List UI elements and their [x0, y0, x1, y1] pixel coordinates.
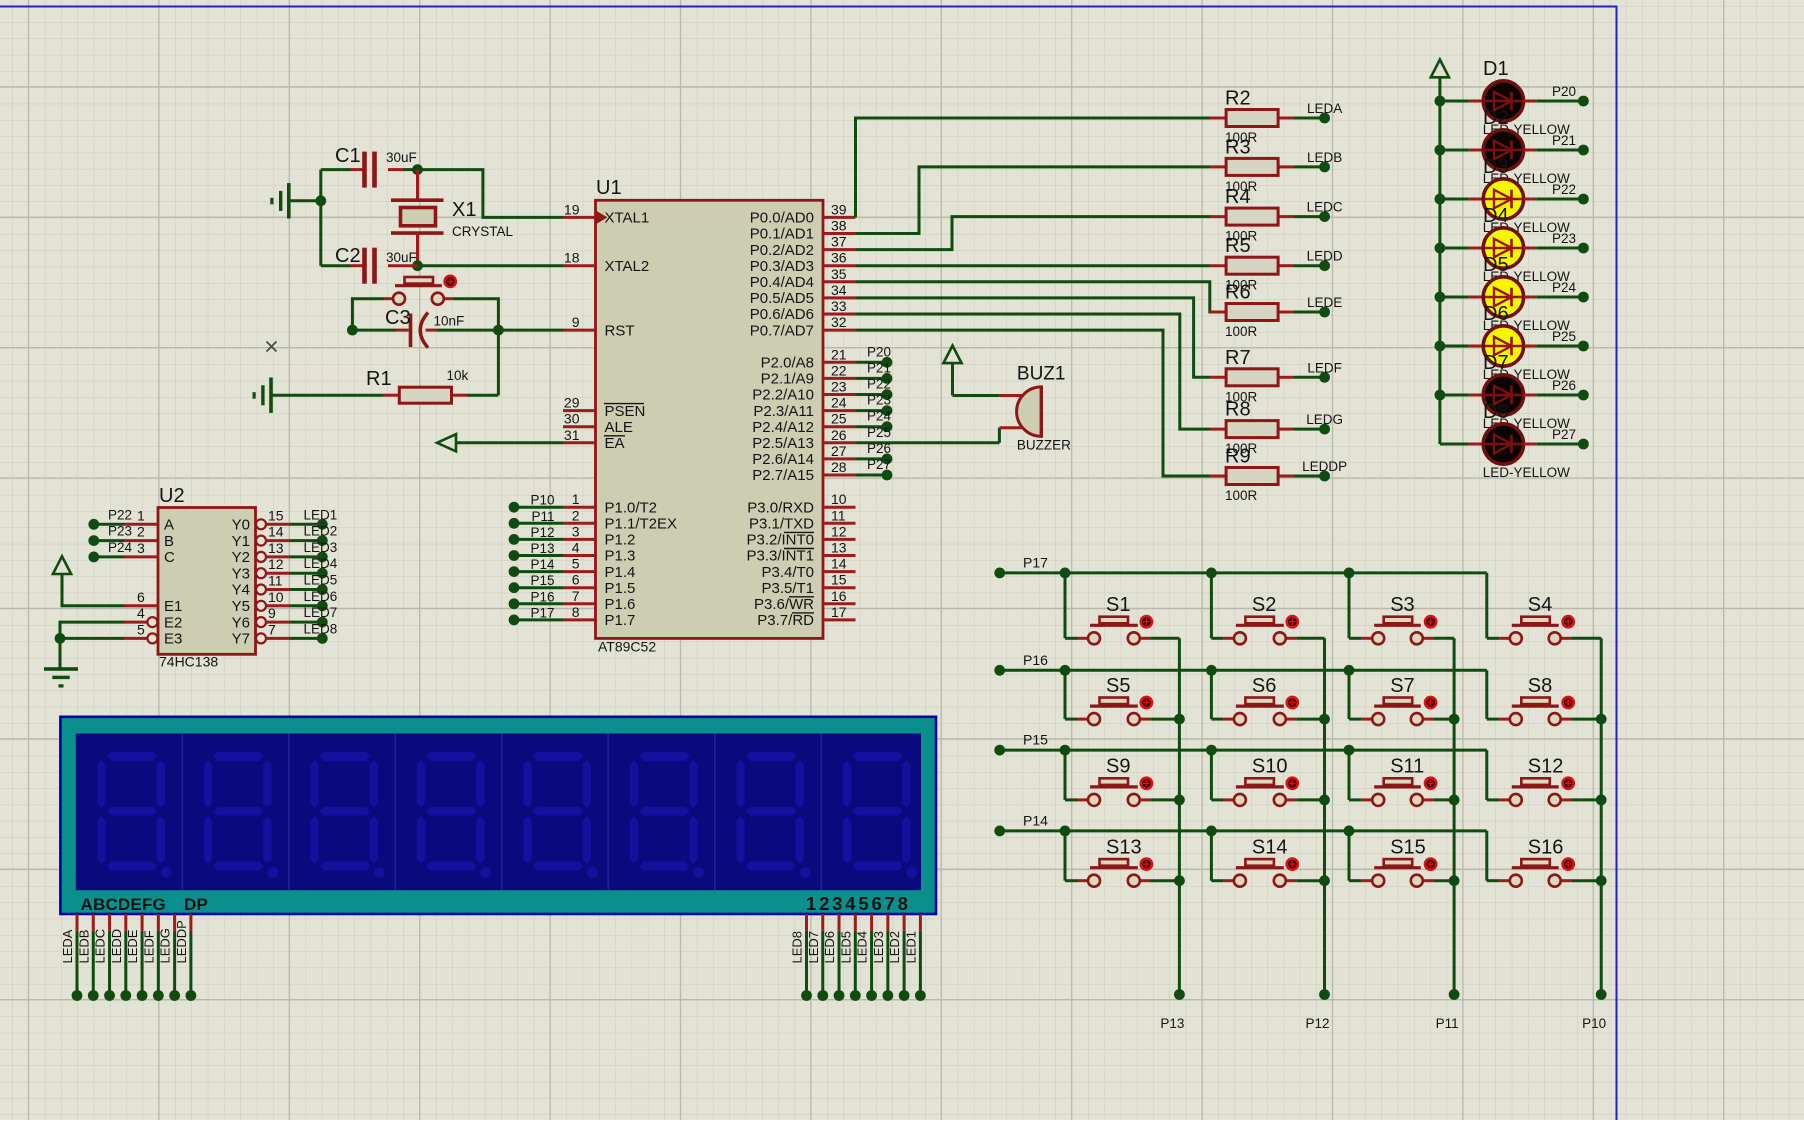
wire tap down (row 1 col 2): [1210, 573, 1213, 638]
pin 2 P1.1/T2EX (U1 left): [563, 507, 677, 532]
node LED rail junction 5: [1435, 292, 1446, 303]
svg-text:29: 29: [564, 395, 580, 411]
pin 5 E3 (U2 left): [124, 621, 182, 647]
wire keypad row P17: [994, 554, 1487, 578]
svg-text:D3: D3: [1483, 156, 1509, 178]
pin 8 P1.7 (U1 left): [563, 604, 635, 629]
svg-text:P0.3/AD3: P0.3/AD3: [750, 258, 814, 275]
svg-text:ABCDEFG: ABCDEFG: [81, 895, 166, 914]
svg-text:15: 15: [831, 572, 847, 588]
wire/node P16 (U1 P1.6): [509, 589, 563, 609]
digit separator 3: [394, 734, 396, 891]
wire Y0 to node LED1: [290, 507, 337, 529]
svg-text:P0.6/AD6: P0.6/AD6: [750, 306, 814, 323]
svg-text:36: 36: [831, 250, 847, 266]
wire C1 left to rail: [321, 168, 351, 171]
wire buzzer bottom pin to P2.5: [998, 428, 1001, 443]
digit 8 (7-seg): [843, 752, 918, 878]
svg-text:P14: P14: [1023, 812, 1048, 828]
svg-text:P21: P21: [1552, 133, 1576, 148]
node RST junction: [493, 325, 504, 336]
pin 3 C (U2 left): [124, 540, 175, 566]
wire keypad row P15: [994, 732, 1487, 756]
pin 3 P1.2 (U1 left): [563, 523, 635, 548]
svg-text:P11: P11: [1436, 1016, 1459, 1031]
svg-text:25: 25: [831, 411, 847, 427]
svg-text:LEDG: LEDG: [1306, 412, 1343, 427]
wire/node P14 (U1 P1.4): [509, 557, 563, 577]
digit separator 1: [181, 734, 183, 891]
node E3 junction: [55, 633, 66, 644]
pin 39 P0.0/AD0 (U1 right): [750, 201, 856, 226]
LED D3 (LED-YELLOW): [1440, 179, 1536, 219]
svg-text:2: 2: [137, 524, 145, 540]
svg-text:3: 3: [137, 540, 145, 556]
crystal X1: [391, 170, 444, 266]
svg-text:LED2: LED2: [304, 524, 338, 539]
svg-text:D7: D7: [1483, 352, 1509, 374]
svg-text:LEDDP: LEDDP: [174, 920, 189, 963]
wire D6 to node P25: [1536, 329, 1589, 351]
wire/node P17 (U1 P1.7): [509, 605, 563, 625]
display segment pin LEDA: [60, 914, 82, 1001]
svg-text:R9: R9: [1225, 446, 1251, 468]
wire keypad row P16: [994, 652, 1487, 676]
wire tap down (row 1 col 4): [1485, 573, 1488, 638]
svg-text:P21: P21: [867, 360, 891, 375]
svg-text:P0.2/AD2: P0.2/AD2: [750, 242, 814, 259]
svg-text:8: 8: [572, 604, 580, 620]
svg-text:10k: 10k: [447, 368, 469, 383]
wire D8 to node P27: [1536, 427, 1589, 449]
node column P12 row 3: [1319, 795, 1330, 806]
wire R1 left to ground: [272, 394, 384, 397]
pin 29 PSEN (U1 left): [563, 395, 645, 420]
wire tap down (row 4 col 4): [1485, 831, 1488, 881]
svg-text:6: 6: [137, 589, 145, 605]
svg-text:Y3: Y3: [232, 565, 250, 582]
svg-text:S1: S1: [1106, 594, 1130, 616]
pin 18 XTAL2 (U1 left): [563, 250, 649, 275]
node row P17 tap col 2: [1206, 568, 1217, 579]
node column P11 row 4: [1449, 875, 1460, 886]
node LED rail junction 2: [1435, 145, 1446, 156]
node column P10 row 2: [1596, 714, 1607, 725]
svg-text:LED4: LED4: [304, 556, 338, 571]
pin 23 P2.2/A10 (U1 right): [752, 379, 855, 404]
node LED rail junction 1: [1435, 96, 1446, 107]
svg-text:P1.5: P1.5: [605, 580, 636, 597]
wire R1 right to RST rail: [467, 394, 498, 397]
node row P17 tap col 3: [1344, 568, 1355, 579]
svg-text:E1: E1: [164, 598, 182, 615]
wire D5 to node P24: [1536, 280, 1589, 302]
digit 5 (7-seg): [523, 752, 598, 878]
svg-text:RST: RST: [605, 322, 635, 339]
push button (reset): [384, 276, 456, 305]
svg-text:15: 15: [268, 507, 284, 523]
svg-text:P0.5/AD5: P0.5/AD5: [750, 290, 814, 307]
svg-text:1: 1: [137, 507, 145, 523]
pin 34 P0.5/AD5 (U1 right): [750, 282, 856, 307]
node row P16 tap col 2: [1206, 665, 1217, 676]
svg-text:S16: S16: [1528, 836, 1564, 858]
wire E3 to ground rail: [60, 637, 124, 640]
digit separator 2: [288, 734, 290, 891]
svg-text:LEDE: LEDE: [1307, 295, 1342, 310]
svg-text:P14: P14: [530, 557, 555, 572]
svg-text:P1.3: P1.3: [605, 548, 636, 565]
display segment pin LEDG: [158, 914, 180, 1001]
svg-text:19: 19: [564, 201, 580, 217]
node osc ground junction: [315, 195, 326, 206]
wire/node P23 (U2 input B): [88, 524, 132, 546]
pin 1 P1.0/T2 (U1 left): [563, 491, 657, 516]
display segment pin LEDDP: [174, 914, 196, 1001]
svg-text:PSEN: PSEN: [605, 403, 646, 420]
svg-text:R5: R5: [1225, 235, 1251, 257]
display segment pin LEDB: [76, 914, 98, 1001]
digit 7 (7-seg): [736, 752, 811, 878]
pin 16 P3.6/WR (U1 right): [754, 588, 856, 613]
svg-text:LEDC: LEDC: [93, 929, 108, 964]
IC U2 74HC138 body: [158, 508, 256, 655]
svg-text:XTAL2: XTAL2: [605, 258, 650, 275]
svg-text:X1: X1: [452, 199, 476, 221]
pin 10 P3.0/RXD (U1 right): [747, 491, 855, 516]
wire tap down (row 4 col 1): [1064, 831, 1067, 881]
svg-text:3: 3: [572, 523, 580, 539]
wire Y1 to node LED2: [290, 524, 337, 546]
wire tap down (row 3 col 1): [1064, 750, 1067, 800]
svg-text:R3: R3: [1225, 136, 1251, 158]
svg-text:31: 31: [564, 427, 580, 443]
svg-text:S15: S15: [1390, 836, 1426, 858]
wire tap down (row 2 col 4): [1485, 670, 1488, 719]
svg-text:P22: P22: [1552, 182, 1576, 197]
svg-text:LED7: LED7: [304, 605, 338, 620]
wire button right down to RST: [454, 299, 499, 396]
svg-text:P27: P27: [867, 457, 891, 472]
node P27 (U1 P2.7): [856, 457, 893, 480]
wire Y4 to node LED5: [290, 573, 337, 595]
display digit pin LED2: [887, 914, 909, 1001]
digit separator 4: [501, 734, 503, 891]
svg-text:P2.6/A14: P2.6/A14: [752, 451, 814, 468]
svg-text:P0.4/AD4: P0.4/AD4: [750, 274, 814, 291]
svg-text:R1: R1: [366, 368, 392, 390]
svg-text:S8: S8: [1528, 675, 1552, 697]
svg-text:LEDE: LEDE: [125, 929, 140, 963]
push button S7: [1349, 697, 1454, 725]
svg-text:LED8: LED8: [304, 621, 338, 636]
wire U1 P0 to R8: [856, 314, 1211, 429]
svg-text:P24: P24: [867, 409, 892, 424]
svg-text:S12: S12: [1528, 756, 1564, 778]
wire Y3 to node LED4: [290, 556, 338, 578]
wire U1 P0 to R5: [856, 264, 1211, 267]
pin 31 EA (U1 left): [563, 427, 625, 452]
wire left rail C1-C2: [319, 170, 322, 266]
display digit pin LED3: [871, 914, 893, 1001]
svg-text:4: 4: [572, 540, 580, 556]
svg-text:S14: S14: [1252, 836, 1288, 858]
power arrow (U2 E1): [53, 556, 124, 606]
svg-text:21: 21: [831, 346, 847, 362]
wire/node P22 (U2 input A): [88, 507, 132, 529]
svg-text:5: 5: [572, 556, 580, 572]
svg-text:LEDB: LEDB: [1307, 150, 1342, 165]
wire keypad column P11: [1436, 638, 1460, 1031]
svg-text:R4: R4: [1225, 186, 1251, 208]
wire R6 to node LEDE: [1294, 295, 1342, 317]
wire/node P15 (U1 P1.5): [509, 573, 563, 593]
pin 1 A (U2 left): [124, 507, 174, 533]
pin 11 Y4 (U2 right): [232, 573, 290, 599]
wire E2 to ground rail: [60, 622, 124, 669]
svg-text:P24: P24: [108, 540, 133, 555]
svg-text:S13: S13: [1106, 836, 1142, 858]
svg-text:S4: S4: [1528, 594, 1552, 616]
svg-text:P20: P20: [867, 344, 891, 359]
svg-text:LED2: LED2: [887, 931, 902, 964]
svg-text:27: 27: [831, 443, 847, 459]
svg-text:CRYSTAL: CRYSTAL: [452, 224, 514, 239]
wire Y2 to node LED3: [290, 540, 337, 562]
svg-text:7: 7: [268, 621, 276, 637]
node column P12 row 4: [1319, 875, 1330, 886]
display digit pin LED5: [838, 914, 860, 1001]
svg-text:D6: D6: [1483, 303, 1509, 325]
wire D2 to node P21: [1536, 133, 1589, 155]
svg-text:P3.4/T0: P3.4/T0: [761, 564, 814, 581]
svg-text:Y1: Y1: [232, 533, 250, 550]
svg-text:R8: R8: [1225, 399, 1251, 421]
node column P13 row 2: [1174, 714, 1185, 725]
pin 14 Y1 (U2 right): [232, 524, 290, 550]
svg-text:P25: P25: [1552, 329, 1576, 344]
svg-text:P24: P24: [1552, 280, 1577, 295]
digit 6 (7-seg): [630, 752, 705, 878]
wire/node P10 (U1 P1.0): [509, 493, 563, 513]
digit separator 5: [607, 734, 609, 891]
svg-text:LED6: LED6: [822, 931, 837, 964]
svg-text:C1: C1: [335, 145, 361, 167]
svg-text:11: 11: [831, 507, 846, 523]
wire D1 to node P20: [1536, 84, 1589, 106]
svg-text:P2.4/A12: P2.4/A12: [752, 419, 814, 436]
digit 4 (7-seg): [417, 752, 492, 878]
svg-text:P3.1/TXD: P3.1/TXD: [749, 516, 814, 533]
svg-text:C3: C3: [385, 307, 411, 329]
wire tap down (row 3 col 4): [1485, 750, 1488, 800]
node P24 (U1 P2.4): [856, 409, 893, 432]
svg-text:P1.7: P1.7: [605, 612, 636, 629]
node row P15 tap col 1: [1060, 745, 1071, 756]
node LED rail junction 3: [1435, 194, 1446, 205]
pin 6 P1.5 (U1 left): [563, 572, 635, 597]
wire R5 to node LEDD: [1294, 249, 1343, 271]
node P25 (U1 P2.5): [856, 425, 1000, 443]
svg-text:U1: U1: [596, 177, 622, 199]
node column P11 row 2: [1449, 714, 1460, 725]
svg-text:Y7: Y7: [232, 631, 250, 648]
pin 13 P3.3/INT1 (U1 right): [746, 540, 855, 565]
resistor R7: [1210, 369, 1294, 386]
LED D7 (LED-YELLOW): [1440, 375, 1536, 415]
node row P15 tap col 3: [1344, 745, 1355, 756]
pin 36 P0.3/AD3 (U1 right): [750, 250, 856, 275]
wire tap down (row 3 col 3): [1348, 750, 1351, 800]
svg-text:LEDA: LEDA: [60, 929, 75, 963]
svg-text:S9: S9: [1106, 756, 1130, 778]
svg-text:P27: P27: [1552, 427, 1576, 442]
ground (oscillator): [270, 183, 321, 218]
push button S2: [1211, 616, 1324, 644]
svg-text:LED5: LED5: [838, 931, 853, 964]
push button S4: [1487, 616, 1601, 644]
svg-text:P23: P23: [1552, 231, 1576, 246]
pin 26 P2.5/A13 (U1 right): [752, 427, 855, 452]
push button S15: [1349, 859, 1454, 887]
wire U1 P0 to R2: [856, 118, 1211, 217]
svg-text:LED3: LED3: [871, 931, 886, 964]
push button S11: [1349, 778, 1454, 806]
power arrow (LED rail): [1431, 60, 1449, 445]
svg-text:LED5: LED5: [304, 573, 338, 588]
svg-text:14: 14: [268, 524, 284, 540]
wire tap down (row 2 col 1): [1064, 670, 1067, 719]
svg-text:P13: P13: [530, 541, 554, 556]
svg-text:D2: D2: [1483, 107, 1509, 129]
resistor R3: [1210, 158, 1294, 175]
resistor R5: [1210, 257, 1294, 274]
svg-text:LEDD: LEDD: [109, 929, 124, 964]
digit 1 (7-seg): [97, 752, 172, 878]
svg-text:P23: P23: [867, 393, 891, 408]
wire tap down (row 1 col 3): [1348, 573, 1351, 638]
svg-text:D8: D8: [1483, 401, 1509, 423]
svg-text:P2.2/A10: P2.2/A10: [752, 387, 814, 404]
svg-text:P2.5/A13: P2.5/A13: [752, 435, 814, 452]
resistor R8: [1210, 421, 1294, 438]
display digit pin LED4: [855, 914, 877, 1001]
pin 35 P0.4/AD4 (U1 right): [750, 266, 856, 291]
svg-text:P26: P26: [867, 441, 891, 456]
wire/node P11 (U1 P1.1): [509, 509, 563, 529]
svg-text:P3.5/T1: P3.5/T1: [761, 580, 814, 597]
pin 4 E2 (U2 left): [124, 605, 182, 631]
svg-text:P2.0/A8: P2.0/A8: [761, 355, 814, 372]
svg-text:D4: D4: [1483, 205, 1509, 227]
svg-text:13: 13: [831, 540, 847, 556]
wire tap down (row 3 col 2): [1210, 750, 1213, 800]
pin 15 Y0 (U2 right): [232, 507, 290, 533]
svg-text:R6: R6: [1225, 282, 1251, 304]
svg-text:P12: P12: [530, 525, 554, 540]
EA bus entry arrow: [437, 434, 563, 451]
svg-text:LEDF: LEDF: [1307, 360, 1342, 375]
resistor R9: [1210, 468, 1294, 485]
svg-text:P17: P17: [1023, 554, 1048, 570]
svg-text:BUZ1: BUZ1: [1017, 363, 1066, 384]
svg-text:P3.2/INT0: P3.2/INT0: [746, 532, 814, 549]
wire Y5 to node LED6: [290, 589, 337, 611]
svg-text:23: 23: [831, 379, 847, 395]
svg-text:P3.7/RD: P3.7/RD: [757, 612, 814, 629]
digit 3 (7-seg): [310, 752, 385, 878]
pin 28 P2.7/A15 (U1 right): [752, 459, 855, 484]
svg-text:32: 32: [831, 314, 847, 330]
svg-text:18: 18: [564, 250, 580, 266]
svg-text:11: 11: [268, 573, 283, 589]
svg-text:P0.7/AD7: P0.7/AD7: [750, 322, 814, 339]
node column P13 row 3: [1174, 795, 1185, 806]
pin 4 P1.3 (U1 left): [563, 540, 635, 565]
node LED rail junction 7: [1435, 390, 1446, 401]
svg-text:13: 13: [268, 540, 284, 556]
svg-text:Y6: Y6: [232, 614, 250, 631]
svg-text:6: 6: [572, 572, 580, 588]
svg-text:LEDC: LEDC: [1307, 200, 1343, 215]
svg-text:C: C: [164, 549, 175, 566]
svg-text:35: 35: [831, 266, 847, 282]
wire R3 to node LEDB: [1294, 150, 1342, 172]
svg-text:P22: P22: [867, 377, 891, 392]
LED D8 (LED-YELLOW): [1440, 424, 1536, 464]
wire RST to U1: [498, 329, 563, 332]
digit separator 7: [820, 734, 822, 891]
node button/C3 left: [347, 325, 358, 336]
resistor R1: [384, 387, 467, 403]
IC U1 AT89C52 body: [596, 200, 824, 638]
ground (reset R1): [253, 378, 273, 413]
svg-text:C2: C2: [335, 245, 361, 267]
wire R4 to node LEDC: [1294, 200, 1343, 222]
svg-text:P3.6/WR: P3.6/WR: [754, 596, 814, 613]
svg-text:22: 22: [831, 362, 847, 378]
display segment pin LEDF: [141, 914, 163, 1001]
svg-text:39: 39: [831, 201, 847, 217]
svg-text:P2.3/A11: P2.3/A11: [753, 403, 814, 420]
svg-text:LED4: LED4: [855, 931, 870, 964]
node LED rail junction 6: [1435, 341, 1446, 352]
node column P11 row 3: [1449, 795, 1460, 806]
wire/node P12 (U1 P1.2): [509, 525, 563, 545]
svg-text:S10: S10: [1252, 756, 1288, 778]
node row P16 tap col 1: [1060, 665, 1071, 676]
svg-text:14: 14: [831, 556, 847, 572]
push button S16: [1487, 859, 1601, 887]
svg-text:12: 12: [268, 556, 284, 572]
node P20 (U1 P2.0): [856, 344, 893, 367]
svg-text:B: B: [164, 533, 174, 550]
wire D4 to node P23: [1536, 231, 1589, 253]
pin 7 Y7 (U2 right): [232, 621, 290, 647]
wire Y7 to node LED8: [290, 621, 337, 643]
display digit pin LED8: [790, 914, 812, 1001]
pin 30 ALE (U1 left): [563, 411, 633, 436]
wire keypad row P14: [994, 812, 1487, 836]
svg-text:P26: P26: [1552, 378, 1576, 393]
svg-text:P10: P10: [530, 493, 554, 508]
svg-text:A: A: [164, 517, 174, 534]
svg-text:S6: S6: [1252, 675, 1276, 697]
svg-text:LEDF: LEDF: [141, 930, 156, 963]
svg-text:BUZZER: BUZZER: [1017, 437, 1071, 452]
wire tap down (row 4 col 3): [1348, 831, 1351, 881]
svg-text:P22: P22: [108, 507, 132, 522]
